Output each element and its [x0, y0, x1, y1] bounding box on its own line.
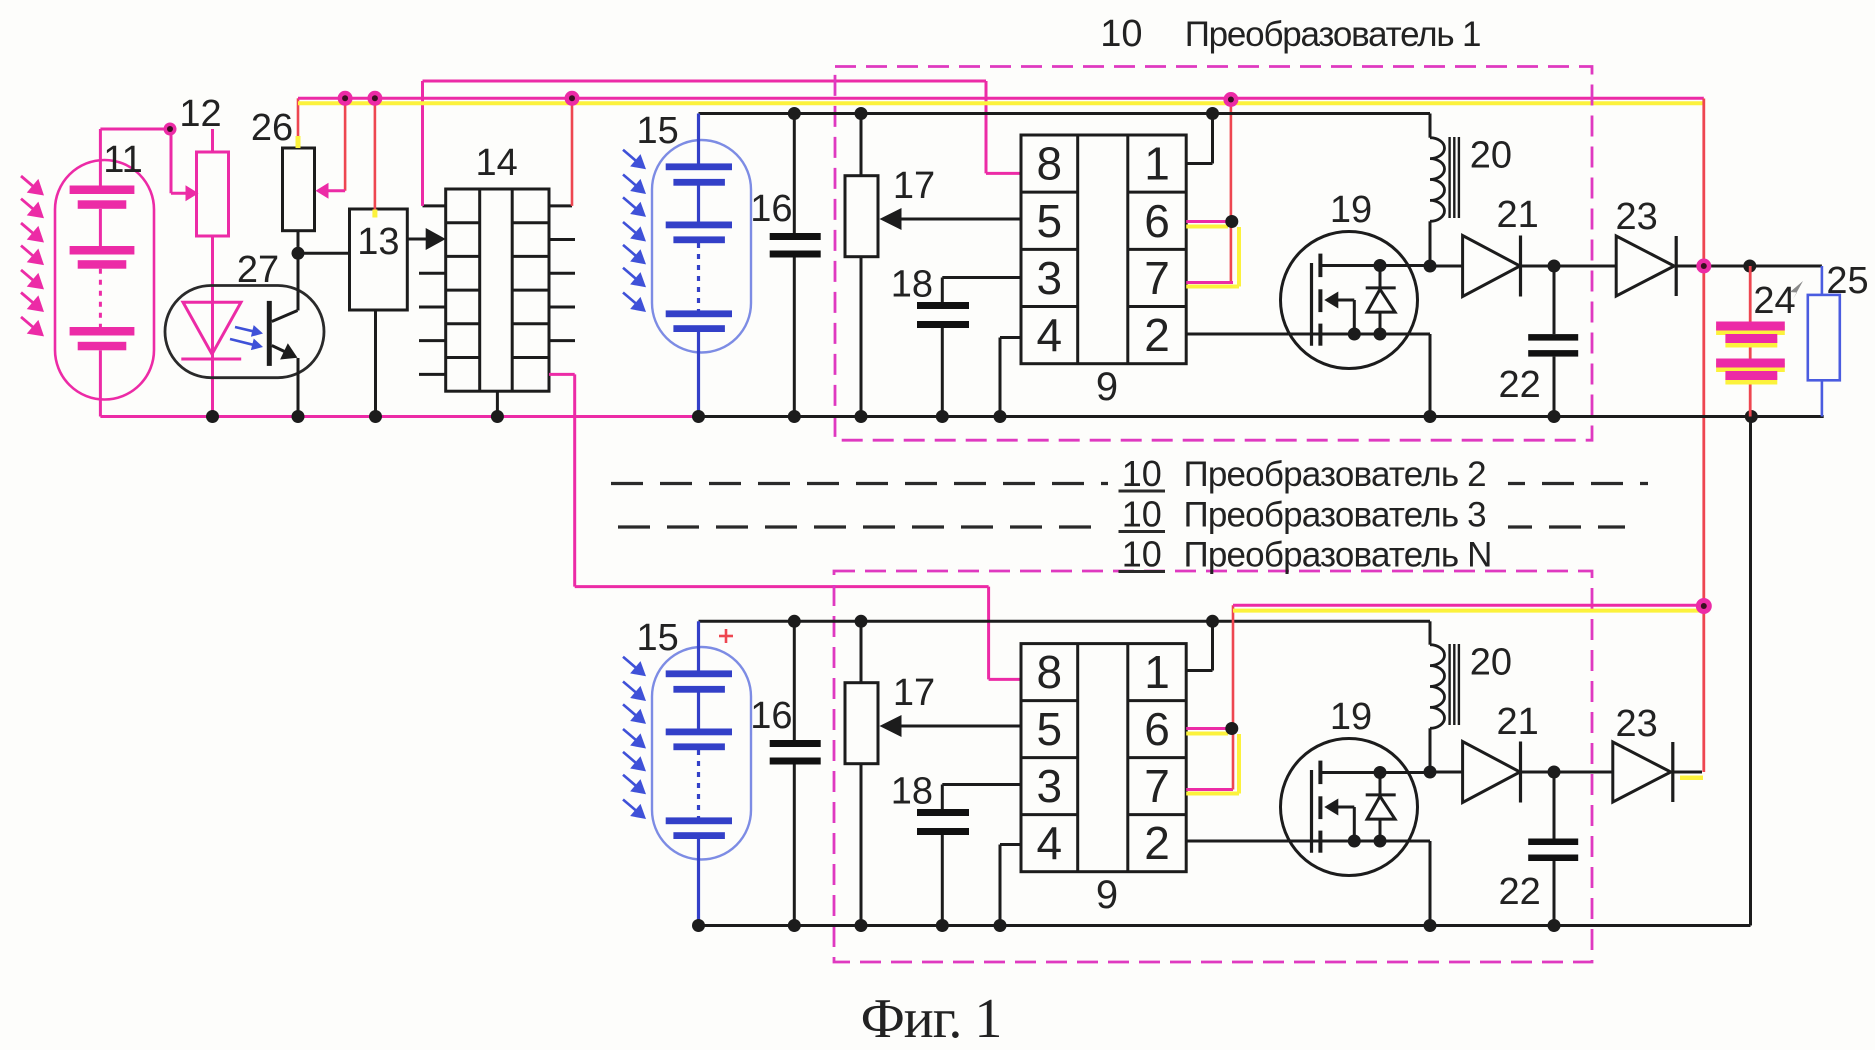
svg-text:21: 21 [1496, 194, 1538, 236]
svg-text:12: 12 [179, 93, 221, 135]
svg-text:3: 3 [1037, 252, 1063, 304]
svg-text:Преобразователь 3: Преобразователь 3 [1184, 496, 1486, 535]
svg-text:7: 7 [1144, 252, 1170, 304]
svg-text:6: 6 [1144, 195, 1170, 247]
svg-text:18: 18 [891, 771, 933, 813]
svg-text:19: 19 [1330, 189, 1372, 231]
svg-text:4: 4 [1037, 817, 1063, 869]
svg-text:8: 8 [1037, 646, 1063, 698]
svg-text:27: 27 [237, 249, 279, 291]
svg-text:1: 1 [1144, 646, 1170, 698]
svg-text:5: 5 [1037, 703, 1063, 755]
svg-text:23: 23 [1615, 196, 1657, 238]
svg-text:10: 10 [1122, 453, 1162, 494]
svg-text:26: 26 [251, 107, 293, 149]
svg-text:18: 18 [891, 264, 933, 306]
svg-text:2: 2 [1144, 817, 1170, 869]
svg-text:23: 23 [1615, 703, 1657, 745]
svg-text:15: 15 [637, 110, 679, 152]
svg-text:8: 8 [1037, 138, 1063, 190]
svg-text:7: 7 [1144, 760, 1170, 812]
svg-text:10: 10 [1122, 494, 1162, 535]
svg-text:10: 10 [1100, 13, 1142, 55]
svg-text:16: 16 [750, 188, 792, 230]
svg-text:Преобразователь 2: Преобразователь 2 [1184, 455, 1486, 494]
svg-text:16: 16 [750, 695, 792, 737]
svg-text:22: 22 [1498, 364, 1540, 406]
svg-text:15: 15 [637, 617, 679, 659]
svg-text:10: 10 [1122, 534, 1162, 575]
svg-text:3: 3 [1037, 760, 1063, 812]
svg-text:9: 9 [1096, 873, 1118, 917]
svg-text:25: 25 [1826, 260, 1868, 302]
svg-text:19: 19 [1330, 696, 1372, 738]
svg-text:22: 22 [1498, 871, 1540, 913]
svg-text:5: 5 [1037, 195, 1063, 247]
svg-text:24: 24 [1753, 280, 1795, 322]
svg-text:11: 11 [103, 139, 142, 181]
svg-text:2: 2 [1144, 309, 1170, 361]
svg-text:9: 9 [1096, 365, 1118, 409]
svg-text:Преобразователь N: Преобразователь N [1184, 536, 1492, 575]
svg-text:20: 20 [1470, 642, 1512, 684]
svg-text:21: 21 [1496, 701, 1538, 743]
svg-text:13: 13 [357, 221, 399, 263]
svg-text:17: 17 [893, 165, 935, 207]
svg-text:14: 14 [476, 142, 518, 184]
svg-text:20: 20 [1470, 135, 1512, 177]
svg-text:4: 4 [1037, 309, 1063, 361]
svg-text:Преобразователь 1: Преобразователь 1 [1185, 15, 1481, 54]
svg-text:Фиг. 1: Фиг. 1 [861, 988, 1002, 1050]
svg-text:1: 1 [1144, 138, 1170, 190]
svg-text:17: 17 [893, 672, 935, 714]
svg-text:6: 6 [1144, 703, 1170, 755]
